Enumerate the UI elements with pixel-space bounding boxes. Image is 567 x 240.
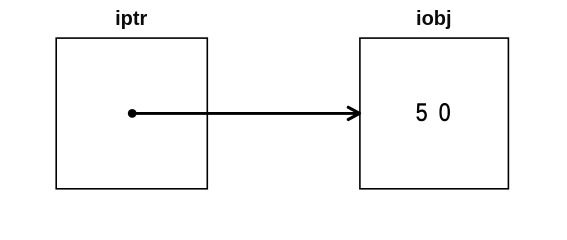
svg-text:0: 0 — [439, 98, 451, 126]
pointer dot — [128, 109, 137, 118]
svg-text:iptr: iptr — [115, 8, 147, 30]
box iobj — [360, 38, 509, 189]
svg-text:iobj: iobj — [416, 8, 452, 30]
box iptr — [56, 38, 207, 189]
pointer arrowhead — [348, 107, 359, 119]
svg-text:5: 5 — [416, 98, 428, 126]
pointer arrow shaft — [132, 112, 358, 115]
